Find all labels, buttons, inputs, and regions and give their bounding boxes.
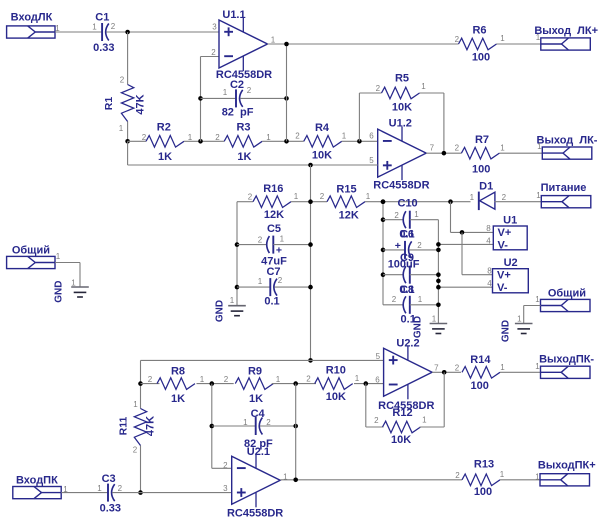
svg-text:2: 2 — [455, 143, 460, 152]
wire R2 to R3 — [184, 140, 224, 142]
pin 1 of ВходПК — [63, 485, 68, 494]
wire -in stub U1.1 — [201, 56, 220, 58]
pin 1 of GND mid-left — [230, 296, 235, 305]
label R16 — [263, 183, 283, 195]
svg-text:6: 6 — [369, 131, 374, 140]
wire R15 to D1 — [365, 201, 471, 203]
wire C4 right lead — [260, 425, 296, 427]
svg-text:5: 5 — [376, 352, 381, 361]
label U1.2 — [389, 117, 412, 129]
svg-text:RC4558DR: RC4558DR — [227, 507, 283, 519]
svg-text:1: 1 — [535, 295, 540, 304]
label R10 — [326, 365, 346, 377]
wire R13 to output — [500, 479, 540, 481]
resistor R1 47K — [121, 85, 133, 122]
resistor R2 1K — [146, 136, 184, 148]
label R11 — [117, 417, 129, 436]
svg-text:GND: GND — [412, 316, 423, 338]
op-amp U2.2 — [384, 346, 433, 400]
svg-text:1: 1 — [243, 418, 248, 427]
wire R10 to U2.2 -in — [354, 383, 384, 385]
label GND left — [54, 280, 65, 302]
svg-text:ВыходПК-: ВыходПК- — [539, 354, 594, 366]
label C5 — [267, 223, 281, 235]
svg-text:Выход ЛК-: Выход ЛК- — [537, 135, 598, 147]
wire output rail down — [286, 44, 288, 141]
pin 2 of R14 — [455, 363, 460, 372]
svg-text:1: 1 — [200, 375, 205, 384]
svg-text:C5: C5 — [267, 223, 281, 235]
resistor R16 12K — [253, 196, 291, 208]
wire C1 to U1.1 +in — [106, 31, 219, 33]
svg-text:V+: V+ — [497, 270, 511, 282]
label C8 — [400, 284, 414, 296]
connector Выход ЛК+ — [534, 25, 598, 50]
pin 1 of C1 — [92, 23, 97, 32]
wire C5 left lead — [237, 244, 267, 246]
svg-text:RC4558DR: RC4558DR — [373, 180, 429, 192]
resistor R3 1K — [224, 136, 262, 148]
junction C5 left — [235, 242, 240, 247]
value 0.33 of C1 — [93, 42, 114, 54]
svg-text:R16: R16 — [263, 183, 283, 195]
value 1K of R3 — [237, 151, 251, 163]
svg-text:1: 1 — [258, 277, 263, 286]
svg-text:ВыходПК+: ВыходПК+ — [538, 460, 596, 472]
wire ВходЛК to C1 — [55, 31, 102, 33]
svg-text:2: 2 — [223, 461, 228, 470]
pin 3 of U2.1 — [223, 484, 228, 493]
wire C9 left lead — [383, 274, 403, 276]
label C3 — [102, 473, 116, 485]
svg-text:V-: V- — [497, 282, 508, 294]
svg-text:1: 1 — [188, 133, 193, 142]
power box U2 — [493, 269, 529, 293]
pin 2 of R9 — [224, 375, 229, 384]
value 12K of R16 — [264, 209, 284, 221]
resistor R8 1K — [157, 378, 195, 390]
pin 1 of C3 — [97, 484, 102, 493]
svg-text:2: 2 — [258, 236, 263, 245]
junction R8/R9 — [210, 381, 215, 386]
svg-text:ВходПК: ВходПК — [16, 475, 58, 487]
value 1K of R2 — [158, 151, 172, 163]
pin 1 of R11 — [133, 400, 138, 409]
pin 1 of GND right — [517, 314, 522, 323]
pin 1 of R14 — [500, 363, 505, 372]
svg-text:2: 2 — [306, 375, 311, 384]
wire ВходПК to C3 — [61, 492, 108, 494]
wire C10 left lead — [383, 219, 403, 221]
wire mid rail horizontal — [128, 141, 378, 165]
svg-text:4: 4 — [487, 279, 492, 288]
pin 1 of R16 — [294, 192, 299, 201]
svg-text:2: 2 — [215, 133, 220, 142]
svg-text:3: 3 — [212, 23, 217, 32]
connector Питание — [541, 182, 591, 208]
svg-text:12K: 12K — [339, 209, 359, 221]
pin 2 of R11 — [133, 446, 138, 455]
svg-text:U1.1: U1.1 — [222, 9, 245, 21]
svg-text:R7: R7 — [475, 134, 489, 146]
wire C2 left lead — [201, 97, 237, 99]
wire R2 left lead — [128, 140, 146, 142]
svg-text:C10: C10 — [398, 198, 418, 210]
wire U1.2 output — [426, 152, 461, 154]
svg-text:C8: C8 — [400, 284, 414, 296]
svg-text:1: 1 — [133, 400, 138, 409]
pin 1 of R2 — [188, 133, 193, 142]
pin 2 of U2.1 — [223, 461, 228, 470]
svg-text:Питание: Питание — [541, 182, 587, 194]
value 0.33 of C3 — [100, 503, 121, 515]
label GND mid-left — [214, 300, 225, 322]
label R13 — [474, 459, 494, 471]
label V+ of U2 — [497, 270, 511, 282]
svg-text:R2: R2 — [157, 122, 171, 134]
label C6 — [400, 228, 414, 240]
pin 2 of C7 — [278, 276, 283, 285]
svg-text:U2: U2 — [504, 257, 518, 269]
pin 1 of R9 — [276, 375, 281, 384]
wire U1.1 output — [268, 43, 459, 45]
svg-text:2: 2 — [394, 211, 399, 220]
svg-text:100: 100 — [474, 486, 492, 498]
resistor R13 100 — [462, 474, 500, 486]
op-amp U2.1 — [232, 454, 281, 508]
label U1 — [503, 214, 517, 226]
pin 2 of R6 — [455, 35, 460, 44]
value 1K of R9 — [249, 393, 263, 405]
junction mid rail T — [308, 163, 313, 168]
value 0.1 of C7 — [264, 296, 279, 308]
value 100uF of C6 — [388, 259, 420, 271]
junction C9 left — [381, 272, 386, 277]
label R8 — [171, 366, 185, 378]
capacitor C6 100uF — [405, 241, 412, 259]
capacitor C2 82pF — [236, 89, 243, 107]
wire bottom rail — [141, 359, 384, 361]
label RC4558DR of U2.1 — [227, 507, 283, 519]
pin 3 of U1.1 — [212, 23, 217, 32]
pin 1 of Общий left — [56, 252, 61, 261]
svg-text:1: 1 — [500, 34, 505, 43]
value 82 pF of C2 — [222, 106, 254, 118]
wire V+ to U1 pin8 — [451, 202, 494, 233]
value 0.1 of C9 — [399, 284, 414, 296]
pin 2 of D1 — [502, 193, 507, 202]
junction C8 right — [436, 303, 441, 308]
resistor R11 47K — [134, 409, 146, 446]
pin 7 of U1.2 — [430, 143, 435, 152]
wire R12 left rail — [366, 384, 384, 427]
junction C4 right — [293, 424, 298, 429]
wire R7 to output — [499, 152, 542, 154]
wire C9 right lead — [410, 274, 439, 276]
wire mid rail vertical — [310, 165, 312, 360]
svg-text:ВходЛК: ВходЛК — [11, 12, 53, 24]
label RC4558DR of U2.2 — [378, 400, 434, 412]
svg-text:47K: 47K — [145, 416, 157, 436]
junction R9/R10 — [293, 381, 298, 386]
svg-text:1: 1 — [119, 124, 124, 133]
svg-text:V+: V+ — [498, 227, 512, 239]
connector ВходПК — [13, 475, 61, 499]
connector ВыходПК- — [539, 354, 594, 379]
wire R16 left lead — [237, 201, 253, 203]
svg-text:1: 1 — [535, 473, 540, 482]
junction C6 right — [436, 248, 441, 253]
svg-text:2: 2 — [374, 416, 379, 425]
value 47uF of C5 — [261, 256, 287, 268]
svg-text:1: 1 — [422, 415, 427, 424]
junction C7 left — [235, 285, 240, 290]
junction R16/R15 on rail — [308, 199, 313, 204]
svg-text:Выход ЛК+: Выход ЛК+ — [534, 25, 598, 37]
svg-text:R10: R10 — [326, 365, 346, 377]
wire Общий right to GND — [524, 306, 541, 324]
label C4 — [251, 408, 266, 420]
pin 1 of R3 — [266, 133, 271, 142]
svg-text:5: 5 — [369, 156, 374, 165]
connector Общий right — [541, 288, 591, 312]
pin 1 of R5 — [421, 82, 426, 91]
svg-text:100: 100 — [471, 380, 489, 392]
pin 2 of R3 — [215, 133, 220, 142]
wire C6 left lead — [383, 249, 405, 251]
value 100 of R6 — [472, 52, 490, 64]
wire R4 node up to R5 — [359, 93, 381, 141]
pin 1 of R6 — [500, 34, 505, 43]
wire R5 to output rail — [420, 93, 444, 153]
wire node to R1 top — [127, 32, 129, 85]
diode D1 — [479, 192, 495, 211]
capacitor C5 47uF — [267, 236, 274, 254]
junction mid rail bottom — [308, 358, 313, 363]
svg-text:GND: GND — [214, 300, 225, 322]
label R9 — [248, 366, 262, 378]
svg-text:1: 1 — [355, 374, 360, 383]
svg-text:12K: 12K — [264, 209, 284, 221]
pin 1 of R4 — [342, 131, 347, 140]
svg-text:U1: U1 — [503, 214, 517, 226]
label R4 — [315, 122, 330, 134]
svg-text:1: 1 — [276, 375, 281, 384]
label U2 — [504, 257, 518, 269]
label R7 — [475, 134, 489, 146]
svg-text:Общий: Общий — [12, 245, 50, 257]
svg-text:R1: R1 — [103, 97, 115, 111]
junction C7 right — [308, 285, 313, 290]
junction C9 right — [436, 272, 441, 277]
pin 2 of R5 — [376, 84, 381, 93]
wire branch to U2 pin8 — [462, 232, 493, 274]
wire C5/C7 left rail — [236, 202, 238, 306]
wire U2.2 output — [432, 371, 461, 373]
svg-text:+: + — [395, 240, 401, 252]
pin 2 of R1 — [120, 76, 125, 85]
pin 2 of U1.1 — [211, 48, 216, 57]
ground GND stack — [430, 324, 448, 334]
pin 8 of U2 — [487, 267, 492, 276]
svg-text:1K: 1K — [249, 393, 263, 405]
svg-text:2: 2 — [248, 193, 253, 202]
svg-text:10K: 10K — [392, 102, 412, 114]
pin 5 of U1.2 — [369, 156, 374, 165]
resistor R6 100 — [459, 38, 497, 50]
resistor R7 100 — [461, 147, 499, 159]
svg-text:2: 2 — [142, 133, 147, 142]
pin 6 of U1.2 — [369, 131, 374, 140]
capacitor C1 — [102, 23, 109, 41]
svg-text:1: 1 — [418, 295, 423, 304]
wire C2 right lead — [240, 97, 286, 99]
wire U2 pin4 — [438, 286, 492, 288]
svg-text:1: 1 — [537, 142, 542, 151]
svg-text:C9: C9 — [400, 252, 414, 264]
capacitor C7 0.1 — [270, 278, 277, 296]
pin 2 of R2 — [142, 133, 147, 142]
label U1.1 — [222, 9, 245, 21]
svg-text:U2.2: U2.2 — [396, 337, 419, 349]
svg-text:1: 1 — [280, 235, 285, 244]
value 100 of R14 — [471, 380, 489, 392]
value 12K of R15 — [339, 209, 359, 221]
pin 8 of U1 — [486, 224, 491, 233]
svg-text:R3: R3 — [236, 122, 250, 134]
pin 1 of R15 — [366, 192, 371, 201]
pin 1 of GND left — [71, 279, 76, 288]
junction V+ node — [448, 199, 453, 204]
wire R4 to U1.2 -in — [342, 140, 378, 142]
label C7 — [266, 266, 280, 278]
junction input ПК node — [138, 490, 143, 495]
junction C5 right — [308, 242, 313, 247]
svg-text:1K: 1K — [158, 151, 172, 163]
wire R3 to R4 — [262, 140, 304, 142]
pin 1 of R7 — [500, 143, 505, 152]
pin 1 of ВходЛК — [55, 24, 60, 33]
wire cap stack left rail — [382, 202, 384, 305]
capacitor C3 — [108, 484, 115, 502]
pin 2 of R4 — [295, 131, 300, 140]
resistor R5 10K — [382, 87, 420, 99]
svg-text:1: 1 — [71, 279, 76, 288]
svg-text:R13: R13 — [474, 459, 494, 471]
op-amp U1.2 — [378, 127, 427, 180]
junction R2/R3 feedback — [198, 139, 203, 144]
pin 1 of C4 — [243, 418, 248, 427]
svg-text:2: 2 — [224, 375, 229, 384]
value 100 of R7 — [472, 164, 490, 176]
label RC4558DR of U1.2 — [373, 180, 429, 192]
svg-text:1K: 1K — [171, 393, 185, 405]
label V+ of U1 — [498, 227, 512, 239]
pin 1 of C5 — [280, 235, 285, 244]
wire R16 to R15 — [291, 201, 327, 203]
wire C7 right lead — [275, 286, 311, 288]
label R14 — [470, 354, 491, 366]
svg-text:2: 2 — [376, 84, 381, 93]
junction node after C1 — [125, 30, 130, 35]
junction U1 pin4 on rail — [436, 242, 441, 247]
svg-text:R11: R11 — [117, 417, 129, 436]
wire C3 to node — [112, 492, 140, 494]
svg-text:R8: R8 — [171, 366, 185, 378]
junction C6 left — [381, 248, 386, 253]
svg-text:2: 2 — [278, 276, 283, 285]
pin 2 of R16 — [248, 193, 253, 202]
value 10K of R5 — [392, 102, 412, 114]
junction U2 pin4 on rail — [436, 285, 441, 290]
svg-text:6: 6 — [375, 376, 380, 385]
ground GND left — [71, 287, 89, 297]
svg-text:1: 1 — [342, 131, 347, 140]
pin 2 of R13 — [455, 471, 460, 480]
resistor R10 10K — [315, 378, 353, 390]
svg-text:1: 1 — [271, 36, 276, 45]
svg-text:2: 2 — [417, 241, 422, 250]
label C10 — [398, 198, 418, 210]
svg-text:2: 2 — [266, 418, 271, 427]
resistor R14 100 — [462, 367, 500, 379]
pin 2 of R12 — [374, 416, 379, 425]
pin 2 of C10 — [394, 211, 399, 220]
svg-text:1K: 1K — [237, 151, 251, 163]
junction R3/R4 — [284, 139, 289, 144]
junction R8/R11 — [138, 381, 143, 386]
label C1 — [95, 12, 109, 24]
value 10K of R12 — [391, 434, 411, 446]
svg-text:GND: GND — [54, 280, 65, 302]
pin 1 of R13 — [500, 470, 505, 479]
svg-text:1: 1 — [230, 296, 235, 305]
svg-text:8: 8 — [486, 224, 491, 233]
value 1K of R8 — [171, 393, 185, 405]
svg-text:1: 1 — [500, 363, 505, 372]
pin 1 of Выход ЛК+ — [536, 33, 541, 42]
junction C10 left — [381, 217, 386, 222]
svg-text:2: 2 — [320, 192, 325, 201]
svg-text:1: 1 — [536, 33, 541, 42]
svg-text:2: 2 — [120, 76, 125, 85]
wire R9 to R10 — [272, 383, 316, 385]
pin 1 of ВыходПК+ — [535, 473, 540, 482]
value 10K of R10 — [326, 391, 346, 403]
junction R15 right — [381, 199, 386, 204]
junction C4 left — [210, 424, 215, 429]
svg-text:10K: 10K — [391, 434, 411, 446]
value 0.1 of C8 — [401, 314, 416, 326]
wire U2.1 out rail — [295, 384, 297, 480]
svg-text:2: 2 — [455, 471, 460, 480]
pin 1 of GND stack — [432, 314, 437, 323]
pin 1 of Общий right — [535, 295, 540, 304]
svg-text:U1.2: U1.2 — [389, 117, 412, 129]
wire R6 to output — [497, 43, 541, 45]
svg-text:1: 1 — [92, 23, 97, 32]
pin 5 of U2.2 — [376, 352, 381, 361]
label R2 — [157, 122, 171, 134]
junction U1.2 output — [442, 151, 447, 156]
pin 2 of R10 — [306, 375, 311, 384]
pin 4 of U1 — [486, 236, 491, 245]
junction stack top — [381, 199, 386, 204]
value 47K of R1 — [135, 94, 147, 114]
junction C2 left — [198, 96, 203, 101]
junction U2.2 output — [442, 370, 447, 375]
svg-text:1: 1 — [223, 88, 228, 97]
